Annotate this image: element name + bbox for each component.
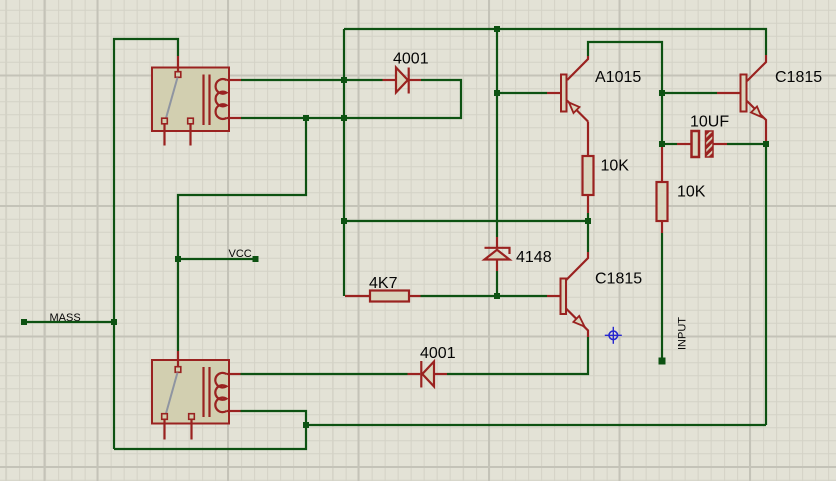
terminal VCC (253, 256, 259, 262)
label MASS (50, 312, 81, 324)
terminal MASS (21, 319, 27, 325)
label Q3 value C1815 (775, 69, 822, 86)
svg-text:VCC: VCC (229, 248, 252, 260)
svg-text:10K: 10K (601, 158, 630, 175)
node junction Q3 base (659, 90, 665, 96)
node junction x344 coil bottom (341, 115, 347, 121)
wire relay RL2 coil top to D3 (241, 373, 408, 375)
label INPUT (677, 317, 689, 350)
label D1 value 4001 (393, 51, 429, 68)
svg-text:A1015: A1015 (595, 69, 641, 86)
resistor R1 10K (583, 122, 594, 214)
wire left mid column x344 (343, 29, 345, 296)
label D2 value 4148 (516, 249, 552, 266)
transistor Q3 C1815 (717, 55, 766, 144)
node junction x306 coil bottom (303, 115, 309, 121)
node junction Q1 base (494, 90, 500, 96)
relay RL1 (152, 56, 241, 146)
wire mid row y221 (344, 220, 588, 222)
label R3 value 4K7 (369, 275, 398, 292)
wire Q1 collector bus (588, 42, 662, 147)
svg-text:10K: 10K (677, 184, 706, 201)
wire C1 right (727, 143, 766, 145)
node junction MASS (111, 319, 117, 325)
label D3 value 4001 (420, 345, 456, 362)
wire relay RL2 coil bottom loop (114, 411, 306, 449)
svg-text:10UF: 10UF (690, 114, 729, 131)
wire x497 column (496, 29, 498, 237)
svg-text:INPUT: INPUT (677, 317, 689, 350)
wire left outer column (114, 39, 178, 449)
node junction Q2 base row (494, 293, 500, 299)
label R2 value 10K (677, 184, 706, 201)
terminal INPUT (659, 358, 666, 365)
node junction C1 right (763, 141, 769, 147)
label Q2 value C1815 (595, 271, 642, 288)
label Q1 value A1015 (595, 69, 641, 86)
wire Q3 base bus (662, 92, 717, 94)
wire relay RL1 coil top row (241, 79, 383, 81)
node junction bottom bus (303, 422, 309, 428)
label VCC (229, 248, 252, 260)
wire C1 left (662, 143, 677, 145)
svg-text:4001: 4001 (420, 345, 456, 362)
wire D2 bottom (496, 271, 498, 296)
resistor R3 4K7 (345, 291, 421, 302)
label R1 value 10K (601, 158, 630, 175)
node junction x344 coil top (341, 77, 347, 83)
node junction C1 left (659, 141, 665, 147)
svg-text:4K7: 4K7 (369, 275, 398, 292)
svg-text:C1815: C1815 (775, 69, 822, 86)
wire relay RL2 feed column (178, 118, 306, 351)
svg-text:MASS: MASS (50, 312, 81, 324)
origin marker crosshair (605, 327, 622, 344)
wire D3 to Q2 emitter (447, 337, 588, 374)
svg-text:C1815: C1815 (595, 271, 642, 288)
wire Q2 base row (421, 295, 548, 297)
node junction mid row left (341, 218, 347, 224)
wire INPUT column (661, 233, 663, 361)
wire right column x766 (765, 144, 767, 425)
node junction mid row right (585, 218, 591, 224)
wire D1 cathode loop (241, 80, 461, 118)
wire R1 to Q2 collector (587, 213, 589, 252)
svg-text:4148: 4148 (516, 249, 552, 266)
wire top bus (344, 29, 766, 55)
wire VCC stub (178, 258, 256, 260)
svg-text:4001: 4001 (393, 51, 429, 68)
transistor Q2 C1815 (547, 252, 588, 337)
diode D1 4001 (383, 68, 422, 94)
resistor R2 10K (657, 147, 668, 233)
capacitor C1 10UF (677, 131, 727, 157)
label C1 value 10UF (690, 114, 729, 131)
diode D2 4148 (485, 237, 510, 271)
relay RL2 (152, 351, 241, 440)
wire Q1 base (497, 92, 547, 94)
wire MASS stub (24, 321, 114, 323)
transistor Q1 A1015 (547, 56, 588, 122)
diode D3 4001 (408, 361, 448, 388)
wire bottom bus (306, 424, 766, 426)
node junction VCC (175, 256, 181, 262)
node junction top bus (494, 26, 500, 32)
